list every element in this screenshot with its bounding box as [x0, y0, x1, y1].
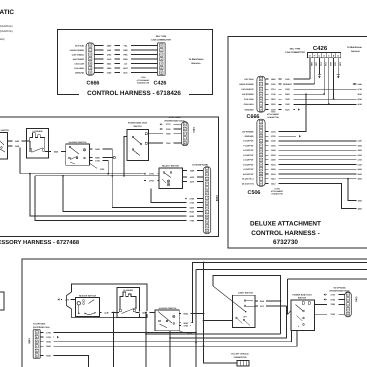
wire heater to flasher 1130 (bottom)	[100, 312, 119, 314]
vertical x196 long drop	[195, 270, 197, 367]
heater switch enclosure (notched)	[72, 284, 148, 318]
svg-text:G OUTPUT: G OUTPUT	[243, 149, 254, 152]
svg-text:6732730: 6732730	[273, 239, 298, 246]
hazard wire 5050 to bullet	[89, 157, 113, 159]
svg-text:PUR: PUR	[285, 78, 290, 81]
wire select to C408 4120	[183, 176, 204, 178]
wire flasher to hazard 4040 (bottom)	[135, 312, 155, 314]
svg-text:CAN HIGH: CAN HIGH	[74, 67, 84, 70]
svg-text:FLASHER: FLASHER	[123, 289, 133, 292]
svg-text:DEL 7-PIN: DEL 7-PIN	[290, 47, 301, 50]
wire C506-B GROUND 2755 with arrow	[266, 135, 297, 137]
svg-text:LIGHT SWITCH: LIGHT SWITCH	[238, 292, 254, 295]
junction and drop x146	[145, 312, 147, 314]
wire C506 output 1249	[266, 140, 367, 142]
wire C506 output 2459	[266, 159, 367, 161]
svg-text:RED: RED	[123, 49, 128, 52]
wire C506 output 5144	[266, 173, 367, 175]
wire C506 output 1409	[266, 149, 367, 151]
vertical x287 from y279	[287, 279, 289, 315]
wire deluxe C666-C (2713 PUR)	[266, 88, 367, 90]
flasher (accessory harness)	[27, 129, 49, 159]
wire C666-F to C426 (1140 RED)	[95, 49, 158, 51]
connector C426 (control harness)	[158, 43, 166, 75]
connector C485 exterior CAN	[33, 330, 40, 358]
svg-text:1708: 1708	[358, 159, 362, 162]
wire C506-L 3413 to edge with step-down branch	[266, 178, 367, 180]
power bob-tach internals (bottom)	[302, 302, 304, 304]
svg-text:SELECT SWITCH: SELECT SWITCH	[162, 165, 179, 168]
svg-text:D OUTPUT: D OUTPUT	[243, 163, 254, 166]
flasher internal contact line	[32, 148, 44, 152]
wire deluxe C666-D (2685 PUR)	[266, 78, 310, 80]
connector C426 horizontal pin row	[308, 53, 341, 58]
heater switch internals	[77, 302, 80, 305]
power bob-tach box (bottom)	[291, 300, 315, 331]
flasher element symbol	[30, 133, 45, 148]
svg-text:1808: 1808	[358, 149, 362, 152]
diagonal feed into light switch	[213, 286, 245, 312]
cut-off switch box at left edge	[0, 133, 8, 160]
hazard right wire 1750 short (bottom)	[179, 324, 191, 326]
svg-text:H OUTPUT: H OUTPUT	[243, 154, 254, 157]
hazard diagonal tap to 1790 wire (bottom)	[179, 331, 183, 333]
wire C666-D to C426 (2685 YEL)	[95, 45, 158, 47]
svg-text:C485: C485	[27, 338, 30, 344]
select switch box	[159, 168, 183, 189]
wire flasher pin L to hazard switch	[45, 151, 66, 153]
wire deluxe C666-E (1740 RNG)	[266, 93, 325, 95]
wire to C801 7010 (accessory)	[149, 142, 182, 144]
svg-text:UNSW POWER: UNSW POWER	[239, 83, 254, 86]
svg-text:E OUTPUT: E OUTPUT	[243, 140, 254, 143]
wire SW POWER drop to C506-K	[266, 94, 307, 131]
wire C666-G to C426 (2190 BLK)	[95, 72, 158, 74]
flasher pins (bottom)	[119, 309, 121, 311]
wire 1160 into C408 from hazard drop	[112, 176, 203, 208]
svg-text:ATTACHMENT: ATTACHMENT	[267, 113, 280, 116]
heater switch box (bottom)	[76, 298, 100, 317]
wire C426-E down	[323, 58, 325, 94]
svg-text:POWER BOB-TACH: POWER BOB-TACH	[128, 122, 148, 125]
svg-text:RNG: RNG	[285, 93, 290, 96]
connector C666 (deluxe harness)	[257, 76, 265, 112]
svg-text:C801: C801	[355, 297, 358, 303]
svg-text:RNG: RNG	[123, 58, 128, 61]
line A y334 from light switch RUN drop	[146, 333, 281, 335]
wire y279 top of bob-tach area	[288, 278, 367, 280]
svg-text:ACCESSORY HARNESS - 6727468: ACCESSORY HARNESS - 6727468	[0, 239, 80, 246]
svg-text:CAN LOW: CAN LOW	[244, 98, 254, 101]
svg-text:1392: 1392	[315, 62, 318, 66]
svg-text:2685: 2685	[310, 62, 313, 66]
wire C666-E to C426 (1310 RNG)	[95, 58, 158, 60]
svg-text:CAN CONNECTOR: CAN CONNECTOR	[285, 51, 305, 54]
hazard switch internals (bottom)	[158, 312, 172, 324]
svg-text:2623: 2623	[329, 62, 332, 66]
connector C801 (accessory)	[182, 122, 189, 146]
wire 6060 into C408 from bus1 drop	[30, 174, 203, 216]
wire C485 5040 long (line D)	[40, 331, 297, 347]
svg-text:CONTROL HARNESS -: CONTROL HARNESS -	[251, 230, 319, 237]
wire bob-tach to C801 2780 (bottom)	[327, 299, 345, 301]
svg-text:F OUTPUT: F OUTPUT	[244, 144, 255, 147]
svg-text:(EXTERIOR CAN): (EXTERIOR CAN)	[33, 326, 50, 329]
svg-text:TO LEFT VEHICLE: TO LEFT VEHICLE	[231, 353, 249, 356]
svg-text:45 (ACTS L): 45 (ACTS L)	[242, 178, 254, 181]
svg-text:5108: 5108	[358, 163, 362, 166]
wire C485 1790 b arrow	[40, 336, 54, 338]
svg-text:1740: 1740	[324, 62, 327, 66]
svg-text:UNSW POWER: UNSW POWER	[70, 49, 85, 52]
wire C426-D down	[309, 58, 311, 79]
svg-text:PUR: PUR	[285, 98, 290, 101]
svg-text:BLK: BLK	[123, 71, 128, 74]
svg-text:C801: C801	[192, 127, 195, 133]
light switch wire RUN	[255, 300, 257, 302]
flasher box (bottom)	[117, 288, 140, 318]
ground symbol at C426-C	[318, 58, 320, 74]
hazard switch (accessory harness)	[66, 144, 90, 165]
svg-text:2618: 2618	[358, 98, 362, 101]
svg-text:KEY SWITCH (REMOVE): KEY SWITCH (REMOVE)	[0, 25, 13, 28]
wire to C801 2770 (accessory)	[163, 123, 182, 125]
svg-text:Harness: Harness	[191, 62, 201, 65]
select switch left arrow wire 2755	[144, 173, 146, 175]
wire bob-tach to C801 2770 (bottom)	[327, 294, 345, 296]
svg-text:2190: 2190	[338, 62, 341, 66]
svg-text:M: M	[206, 216, 208, 219]
hazard switch box (bottom)	[155, 310, 179, 331]
svg-text:SW POWER: SW POWER	[242, 93, 254, 96]
svg-text:1908: 1908	[358, 199, 362, 202]
power bob-tach internals (accessory)	[145, 133, 147, 135]
accessory harness box outline	[0, 117, 219, 237]
wire bob-tach to C801 7010 (bottom)	[315, 313, 345, 315]
deluxe attachment control harness box outline	[228, 37, 367, 249]
svg-text:C OUTPUT: C OUTPUT	[243, 159, 254, 162]
vertical drop x113 to bottom edge	[113, 312, 115, 314]
svg-text:1108: 1108	[358, 140, 362, 143]
svg-text:PUR: PUR	[285, 103, 290, 106]
svg-text:C666: C666	[247, 114, 260, 120]
wire flasher pin X down	[29, 141, 31, 151]
svg-text:DELUXE ATTACHMENT: DELUXE ATTACHMENT	[250, 221, 321, 228]
svg-text:CONTROL HARNESS - 6718426: CONTROL HARNESS - 6718426	[87, 90, 181, 97]
svg-text:CONNECTOR: CONNECTOR	[234, 356, 247, 359]
svg-text:PNK: PNK	[123, 53, 128, 56]
svg-text:CAN CONNECTOR: CAN CONNECTOR	[151, 38, 171, 41]
svg-text:WHT: WHT	[123, 67, 128, 70]
svg-text:2713: 2713	[319, 62, 322, 66]
svg-text:KEY RUN: KEY RUN	[245, 78, 255, 81]
light switch feed loop	[213, 276, 281, 335]
wire 5040 into C408 from bus2 drop	[63, 176, 203, 212]
svg-text:To Mainframe: To Mainframe	[347, 46, 362, 49]
svg-text:GROUND: GROUND	[245, 135, 254, 138]
svg-text:1270: 1270	[65, 298, 69, 301]
svg-text:CONNECTOR: CONNECTOR	[267, 116, 279, 119]
wire C426-B down	[333, 58, 335, 99]
svg-text:1608: 1608	[358, 168, 362, 171]
svg-text:RUN: RUN	[260, 300, 265, 303]
svg-text:DEL 7-PIN: DEL 7-PIN	[156, 35, 167, 38]
wire 7790 into C408 long	[35, 176, 203, 221]
far left cut box (bottom)	[0, 292, 4, 310]
svg-text:MATIC: MATIC	[0, 9, 14, 16]
svg-text:C666: C666	[87, 81, 100, 87]
svg-text:KEY RUN: KEY RUN	[75, 44, 85, 47]
cut-off switch internals	[0, 140, 4, 145]
edge label 0718	[357, 87, 367, 90]
svg-text:SW POWER: SW POWER	[73, 58, 85, 61]
svg-text:HAZARD SWITCH: HAZARD SWITCH	[159, 307, 177, 310]
svg-text:SWITCH: SWITCH	[133, 125, 142, 128]
edge arrow 1108	[353, 83, 355, 85]
svg-text:3408: 3408	[358, 144, 362, 147]
svg-text:1808: 1808	[358, 207, 362, 210]
svg-text:4908: 4908	[358, 178, 362, 181]
wire bob-tach to C801 7080 (bottom)	[315, 303, 345, 305]
hazard right wire 5050 (bottom)	[179, 322, 192, 324]
svg-text:5618: 5618	[358, 103, 362, 106]
svg-text:ATTACHMENT: ATTACHMENT	[137, 79, 151, 82]
title CONTROL HARNESS - 6718426	[79, 89, 189, 96]
termination arrow on GROUND wire (BLK)	[298, 108, 300, 110]
light switch left pole wire	[204, 320, 233, 322]
select switch internals	[163, 172, 165, 174]
svg-text:TO OPTIONS: TO OPTIONS	[168, 116, 181, 119]
connector C506 (14-pin)	[257, 119, 265, 186]
svg-text:5208: 5208	[358, 154, 362, 157]
wire select to C408 4170	[183, 181, 204, 183]
vertical x203 drop to vehicle connector	[204, 263, 238, 364]
wire C506 output 5299	[266, 168, 367, 170]
hazard right wire 5040 (bottom)	[179, 313, 203, 315]
light switch wire ACC	[255, 305, 257, 307]
light switch box	[232, 295, 255, 327]
svg-text:TO MAINFRAME: TO MAINFRAME	[192, 163, 209, 166]
wire to C801 7080 (accessory)	[149, 133, 182, 135]
edge label 2818	[357, 92, 367, 95]
connector C408 (to mainframe)	[203, 167, 210, 234]
hazard wire 1750 down to bus1	[89, 161, 108, 174]
line B y338 from light switch ACC drop	[170, 306, 287, 338]
svg-text:M: M	[260, 173, 262, 176]
svg-text:ATTACHMENT: ATTACHMENT	[271, 190, 284, 193]
long wire y269	[196, 269, 367, 271]
hazard wire 5040 down to bus2	[89, 149, 112, 176]
svg-text:2818: 2818	[358, 93, 362, 96]
wire ACC tap	[257, 305, 287, 307]
wire C506-K SW POWER 1144	[266, 130, 307, 132]
select switch left wire 2755 lower	[146, 179, 157, 182]
svg-text:ACC: ACC	[260, 305, 265, 308]
connector C801 (bottom)	[345, 292, 352, 317]
edge label 5618	[357, 102, 367, 105]
svg-text:3: 3	[298, 325, 299, 328]
svg-text:M OUTPUT: M OUTPUT	[243, 173, 254, 176]
svg-text:HAZARD SWITCH: HAZARD SWITCH	[69, 141, 87, 144]
svg-text:REDWHT: REDWHT	[283, 83, 293, 86]
left vehicle connector symbol	[237, 361, 249, 367]
hazard wire 1750 diagonal	[89, 163, 97, 168]
wire C666-B to C426 (2623 LB)	[95, 63, 158, 65]
svg-text:harness: harness	[351, 50, 361, 53]
flasher element symbol (bottom)	[120, 292, 136, 309]
wire C506-P 3213 stepped	[266, 183, 367, 208]
wire C506 output 5254	[266, 154, 367, 156]
svg-text:C426: C426	[313, 45, 328, 52]
vertical x170 drop	[169, 331, 171, 367]
svg-text:CONNECTOR: CONNECTOR	[137, 82, 150, 85]
svg-text:(POWER BOB-TACH): (POWER BOB-TACH)	[165, 119, 185, 122]
control harness box outline	[58, 30, 213, 95]
wire from switch down to bus (1140)	[8, 146, 21, 174]
svg-text:CAN SHIELD: CAN SHIELD	[72, 53, 85, 56]
svg-text:PUSH BUTTON (REMOVE): PUSH BUTTON (REMOVE)	[0, 30, 13, 33]
wire deluxe C666-A (2520 PUR)	[266, 103, 367, 105]
junction dot SW POWER feed	[305, 93, 307, 95]
flasher contact line (bottom)	[122, 308, 136, 314]
svg-text:TO OPTIONS: TO OPTIONS	[333, 286, 346, 289]
wire 1730 into C408 from select switch drop	[151, 189, 203, 203]
svg-text:GROUND: GROUND	[75, 71, 84, 74]
wire C485 1790 a	[40, 332, 196, 334]
arrow 1270 into heater enclosure	[58, 298, 60, 300]
svg-text:To Mainframe: To Mainframe	[189, 58, 204, 61]
svg-text:CAN HIGH: CAN HIGH	[244, 103, 254, 106]
svg-text:BLK: BLK	[285, 108, 290, 111]
wire from switch to flasher 1130	[8, 140, 31, 142]
svg-text:CAN SHIELD: CAN SHIELD	[241, 88, 254, 91]
svg-text:5008: 5008	[358, 173, 362, 176]
bus wire 2 to select switch (2755)	[35, 175, 159, 177]
wire C426-A down	[328, 58, 330, 104]
long wire y262	[192, 262, 367, 264]
svg-text:2520: 2520	[334, 62, 337, 66]
connector C666 (control harness)	[86, 43, 94, 75]
bottom section box outline	[22, 259, 367, 367]
ground symbol at C426-G	[337, 58, 339, 74]
svg-text:SWITCH: SWITCH	[298, 297, 307, 300]
wire C666-C to C426 (4790 PNK)	[95, 54, 158, 56]
svg-text:CONNECTOR: CONNECTOR	[271, 193, 283, 196]
wire C485 5040 long (line C)	[40, 331, 291, 342]
wire C666-A to C426 (2590 WHT)	[95, 67, 158, 69]
diagonal into bob-tach	[288, 311, 292, 315]
svg-text:PUR: PUR	[285, 88, 290, 91]
wire C506 output 2354	[266, 145, 367, 147]
wire select to C408 1090	[183, 170, 204, 172]
wire deluxe C666-F (1392 REDWHT)	[266, 83, 315, 85]
wire 2790 into C408 (arrow terminated)	[185, 197, 187, 199]
svg-text:14-PIN: 14-PIN	[274, 187, 280, 190]
svg-text:0718: 0718	[358, 88, 362, 91]
svg-text:A OUTPUT: A OUTPUT	[243, 168, 254, 171]
svg-text:SW POWER: SW POWER	[242, 130, 254, 133]
svg-text:2: 2	[137, 152, 138, 155]
bus wire 1 to select switch (2755)	[20, 173, 144, 175]
power bob-tach switch box (accessory)	[127, 130, 149, 161]
wire deluxe C666-B (2623 PUR)	[266, 98, 367, 100]
wire C485 5040 short drop	[40, 356, 88, 367]
svg-text:45 (ACTS R): 45 (ACTS R)	[242, 182, 254, 185]
svg-text:OPTION (CAN): OPTION (CAN)	[0, 38, 5, 41]
svg-text:CAN LOW: CAN LOW	[74, 62, 84, 65]
light switch internals	[244, 300, 246, 302]
wire bob-tach left drop	[124, 137, 127, 176]
svg-text:TO OPTIONS: TO OPTIONS	[33, 322, 46, 325]
flasher pins	[29, 149, 31, 151]
svg-text:KEY SWITCH: KEY SWITCH	[0, 129, 10, 132]
wire deluxe C666-G (2190 BLK)	[266, 108, 296, 110]
svg-text:GROUND: GROUND	[245, 108, 254, 111]
wire RUN tap	[257, 300, 281, 302]
hazard switch internals	[69, 146, 71, 148]
svg-text:7-PIN: 7-PIN	[141, 76, 146, 79]
wire C506 output 5154	[266, 164, 367, 166]
vertical x192 from long wire to hazard	[192, 263, 194, 323]
svg-text:POWER BOB-TACH: POWER BOB-TACH	[292, 293, 312, 296]
wire to C801 2780 (accessory)	[163, 128, 182, 130]
svg-text:C408: C408	[215, 195, 218, 202]
svg-text:1108: 1108	[358, 83, 362, 86]
edge label 2618	[357, 97, 367, 100]
svg-text:C506: C506	[248, 190, 261, 196]
wire C426-F down	[314, 58, 316, 84]
svg-text:C426: C426	[154, 81, 167, 87]
